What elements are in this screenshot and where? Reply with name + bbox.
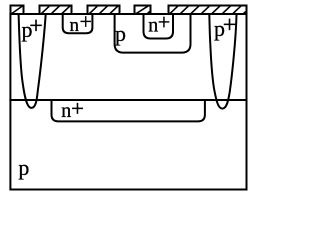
svg-text:+: + — [80, 9, 92, 34]
p base region — [115, 14, 191, 53]
metal contact M4 (hatched) — [135, 5, 151, 14]
metal contact M1 (hatched) — [11, 5, 24, 14]
svg-text:n: n — [70, 15, 80, 36]
n+ buried layer — [52, 100, 205, 121]
metal contact M5 (hatched) — [169, 5, 247, 14]
svg-text:p: p — [115, 21, 126, 46]
p+ isolation region left (deep V) — [19, 14, 46, 108]
metal contact M2 (hatched) — [40, 5, 72, 14]
label n+ (buried layer) — [61, 96, 84, 122]
svg-text:p: p — [18, 155, 29, 180]
epi/substrate boundary line — [9, 99, 247, 101]
metal contact M3 (hatched) — [88, 5, 120, 14]
svg-text:+: + — [158, 9, 170, 34]
label n+ (emitter) — [148, 9, 170, 36]
label p+ (left isolation) — [22, 13, 43, 42]
svg-text:+: + — [29, 13, 43, 39]
substrate outline (outer box, top edge = silicon surface) — [10, 14, 246, 190]
label p+ (right isolation) — [214, 13, 236, 42]
p+ isolation region right (deep V) — [209, 14, 236, 109]
label n+ (collector contact) — [70, 9, 92, 36]
svg-text:+: + — [223, 13, 237, 39]
svg-text:n: n — [61, 100, 71, 122]
n+ collector contact diffusion — [63, 14, 93, 33]
n+ emitter region — [144, 14, 174, 39]
svg-text:+: + — [71, 96, 84, 121]
